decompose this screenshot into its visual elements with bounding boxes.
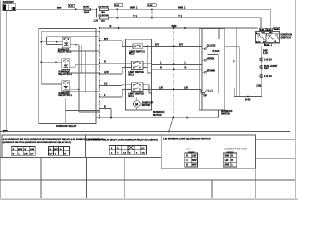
svg-text:MAIN: MAIN: [83, 6, 89, 9]
connector E3 label: [264, 75, 272, 78]
wire W/R top run: [109, 8, 271, 10]
wire battery ground drop: [5, 11, 7, 132]
svg-text:NO.2: NO.2: [128, 74, 134, 76]
wire LS2 rows: [125, 46, 151, 73]
wire up contact drop: [233, 88, 235, 97]
limit switch LS1: [132, 83, 144, 92]
switch contact OPEN: [199, 57, 209, 64]
ignition switch box U1: [256, 32, 280, 44]
svg-text:R: R: [185, 67, 187, 70]
wire motor stub: [136, 97, 138, 110]
fuse MAIN 120A: [83, 6, 91, 14]
junction dots relay outputs: [75, 44, 80, 90]
label row89 right: [184, 87, 188, 90]
wire LS3 row: [125, 45, 151, 47]
svg-text:Y 1: Y 1: [178, 14, 182, 18]
right column row 1: [256, 138, 295, 140]
limit switch LS2 label: [128, 72, 144, 76]
label row 97: [104, 94, 106, 97]
label DOWN: [207, 69, 215, 72]
svg-text:RELAY NO.1: RELAY NO.1: [58, 94, 72, 97]
ground bus arrow: [187, 117, 190, 119]
limit switch LS2: [132, 61, 144, 69]
relay box bus dashed connector: [99, 27, 101, 119]
label B/W feed: [57, 8, 62, 10]
label row46 left: [155, 44, 160, 47]
junction dot ground 173: [172, 117, 174, 119]
ignition contact 1: [258, 33, 265, 40]
svg-text:120A: 120A: [84, 11, 90, 14]
section C box: [161, 135, 255, 168]
label W/B mid: [172, 24, 177, 28]
svg-text:B-06: B-06: [245, 98, 251, 101]
wire switch feed drop: [218, 28, 220, 39]
relay R2: [62, 59, 70, 70]
label row64 right: [185, 62, 187, 65]
svg-text:A-02 SUNROOF RELAY (BODY CONT): A-02 SUNROOF RELAY (BODY CONT) SUNROOF R…: [85, 139, 158, 142]
section B header: [85, 139, 158, 142]
svg-text:1/C: 1/C: [142, 152, 146, 154]
grid vertical 255: [255, 139, 257, 198]
label 1and1: [208, 90, 214, 93]
svg-text:1&2: 1&2: [264, 67, 269, 70]
svg-text:SUNROOF: SUNROOF: [221, 111, 233, 113]
label UP: [204, 95, 208, 98]
svg-text:SWITCH: SWITCH: [221, 114, 230, 116]
svg-text:L/R: L/R: [225, 160, 229, 162]
wire bus row 63: [100, 62, 126, 64]
svg-text:L/Y: L/Y: [49, 154, 53, 156]
svg-text:L/Y: L/Y: [30, 154, 34, 156]
label B.10X: [213, 50, 220, 53]
wire motor row 69: [152, 68, 200, 70]
grid vertical 212: [211, 180, 213, 198]
svg-text:1.25: 1.25: [94, 21, 99, 23]
wire LS1 rows: [125, 85, 151, 93]
connector dashed line mid: [173, 27, 175, 118]
ignition switch striped label 3: [274, 27, 280, 30]
ignition internal terminals: [256, 32, 279, 43]
wire motor row 46: [152, 45, 200, 47]
wire motor row 64: [152, 63, 200, 65]
grid vertical 124: [124, 158, 126, 199]
svg-text:R: R: [160, 67, 162, 70]
label row 108: [104, 106, 106, 109]
wire ground bus: [96, 110, 219, 118]
wire relay outputs to collectors: [70, 45, 100, 112]
sunroof switch box: [199, 29, 224, 110]
svg-text:SWITCH: SWITCH: [281, 35, 291, 39]
grid vertical 41: [40, 158, 42, 199]
svg-text:BATTERY: BATTERY: [3, 1, 14, 4]
section C connector 2: [223, 152, 236, 167]
grid line row2 full: [0, 179, 295, 181]
wire bus row 85: [100, 84, 126, 87]
ground arrow battery: [3, 130, 9, 133]
connector circle E1: [260, 58, 263, 62]
connector E2 label: [264, 65, 278, 70]
svg-text:(1#): (1#): [187, 149, 191, 151]
svg-text:R: R: [104, 60, 106, 63]
ignition contact 2: [267, 33, 274, 39]
label row B: [104, 38, 109, 41]
junction LS3: [147, 46, 149, 48]
label row89 left: [159, 87, 163, 90]
junction dots relay feed1: [41, 41, 58, 63]
label 1B: [257, 84, 262, 87]
label 1.25 under wire2: [94, 21, 99, 23]
section C header: [163, 139, 211, 141]
svg-text:ACC: ACC: [256, 40, 261, 43]
connector label C-01: [114, 4, 123, 7]
wire bus row 97: [100, 89, 126, 97]
svg-text:B/Y: B/Y: [104, 38, 109, 41]
svg-text:(1) ROOM: (1) ROOM: [99, 7, 109, 9]
section A connector 2: [48, 147, 69, 156]
label Y mid: [233, 61, 235, 64]
label W/B right: [178, 6, 186, 10]
svg-text:W/R 1: W/R 1: [130, 6, 138, 10]
connector dashed line C-01: [116, 8, 118, 18]
label row 63: [104, 60, 106, 63]
svg-text:OPEN: OPEN: [207, 57, 214, 60]
svg-text:(SUNROOF SW ITCH (SUNROOF MOT: (SUNROOF SW ITCH (SUNROOF MOTOR/SUNROOF …: [3, 141, 72, 144]
motor M1: [133, 101, 140, 108]
label row46 right: [179, 44, 184, 47]
right column row 2: [256, 158, 295, 160]
wire bus row B: [100, 41, 126, 47]
fuse SUNROOF 15A: [99, 15, 110, 22]
label row 74: [104, 71, 109, 74]
sunroof motor box: [125, 39, 151, 110]
wire bus row 74: [100, 67, 126, 74]
section A box: [2, 135, 86, 158]
svg-text:W/B 1: W/B 1: [178, 6, 186, 10]
svg-text:DOWN: DOWN: [207, 69, 215, 72]
wire branch split: [96, 9, 98, 17]
svg-text:Y 1: Y 1: [133, 14, 137, 18]
svg-text:G: G: [60, 149, 62, 151]
sunroof switch label: [221, 111, 233, 116]
label row 85: [104, 83, 108, 86]
svg-text:L-B-10: L-B-10: [264, 58, 272, 61]
sunroof relay label: [56, 125, 77, 128]
svg-text:1.25: 1.25: [263, 52, 268, 55]
label B left: [110, 24, 112, 28]
sunroof motor box label: [153, 112, 165, 117]
wire relay ground internal: [65, 98, 99, 124]
svg-text:B/Y: B/Y: [179, 44, 184, 47]
connector label X-02: [147, 4, 156, 7]
ignition switch inner box: [266, 33, 280, 42]
svg-text:CLOSE: CLOSE: [207, 45, 216, 48]
wire motor box ground stub: [110, 109, 112, 118]
svg-text:B/Y: B/Y: [155, 44, 160, 47]
sunroof switch inner edge: [201, 29, 203, 110]
left frame border: [0, 1, 2, 199]
svg-text:MOTOR: MOTOR: [153, 115, 162, 117]
wire relay feed top2: [47, 37, 100, 45]
svg-text:SUNROOF: SUNROOF: [153, 112, 165, 114]
svg-text:UP: UP: [204, 95, 208, 98]
wire drop to ignition IG1: [270, 9, 272, 31]
switch contact UP: [199, 90, 207, 95]
junction dot 247: [247, 96, 249, 98]
ignition switch label: [281, 33, 293, 40]
wire relay coil returns: [66, 48, 100, 92]
ignition switch striped label 1: [259, 28, 265, 31]
svg-text:(SUNROOF SW ITCH): (SUNROOF SW ITCH): [225, 149, 248, 151]
label B-06: [245, 98, 251, 101]
wire drop to ignition B: [260, 18, 262, 29]
svg-text:L/R: L/R: [24, 154, 28, 156]
label row69 right: [185, 67, 187, 70]
battery B1: [3, 2, 16, 11]
junction dot feed 118: [118, 27, 120, 29]
fuse ROOM 15A: [99, 7, 110, 14]
junction dot ground 111: [110, 117, 112, 119]
wire close collector: [208, 55, 219, 94]
label row64 left: [160, 62, 162, 65]
svg-text:B/Y: B/Y: [54, 149, 58, 151]
switch contact DOWN: [199, 69, 209, 73]
wire relay feed top1: [41, 32, 99, 84]
connector circle E3: [260, 74, 263, 78]
svg-text:NO.1: NO.1: [128, 96, 134, 98]
relay R1 label: [58, 93, 72, 97]
motor M1 label: [142, 103, 154, 107]
switch contact CLOSE: [199, 46, 209, 50]
junction dot main feed: [75, 8, 77, 10]
wire Y second run: [109, 17, 262, 19]
label CLOSE: [207, 45, 216, 48]
junction dot branch: [96, 9, 98, 11]
connector E1 label: [264, 58, 272, 61]
wire battery feed: [16, 8, 97, 10]
svg-text:L/W: L/W: [104, 71, 109, 74]
limit switch LS3 label: [129, 51, 145, 55]
junction dot feed 185: [184, 27, 186, 29]
svg-text:MOTOR: MOTOR: [142, 105, 151, 107]
grid vertical 86: [85, 158, 87, 199]
relay R3 label: [58, 49, 72, 53]
ignition switch striped label 2: [266, 28, 272, 31]
svg-text:SUNROOF RELAY: SUNROOF RELAY: [56, 125, 77, 128]
wire ignition output drop: [260, 46, 262, 90]
sunroof relay outer box: [39, 28, 96, 123]
svg-text:(1) ROOM: (1) ROOM: [99, 15, 109, 17]
section C connector 1: [185, 152, 198, 167]
svg-text:B: B: [104, 106, 106, 109]
label Y: [133, 14, 137, 18]
section C sublabel 1: [187, 149, 191, 151]
wire ground diagonal: [169, 118, 173, 132]
right frame border: [294, 0, 296, 198]
label row69 left: [160, 67, 162, 70]
svg-text:15A: 15A: [101, 11, 105, 14]
wire ignition to switch vertical: [235, 28, 237, 97]
battery label: [3, 1, 14, 4]
svg-text:1-81 INTERIOR LIGHT (8)-SUNROO: 1-81 INTERIOR LIGHT (8)-SUNROOF SW ITCH: [163, 139, 211, 141]
wire ignition feed bus y28: [99, 27, 258, 29]
relay R3: [62, 37, 70, 48]
wire horizontal ignition ground run: [234, 90, 262, 97]
connector circle E2: [260, 65, 263, 69]
label B/W ignition out: [263, 50, 268, 55]
wire close output drop: [225, 47, 240, 97]
section C sublabel 2: [225, 149, 248, 151]
table top line: [0, 130, 290, 132]
connector dashed line X-02: [151, 8, 153, 18]
grid line left row1: [0, 157, 161, 159]
section B connector: [109, 146, 146, 155]
svg-text:L/R: L/R: [184, 87, 188, 90]
svg-text:LG: LG: [104, 83, 108, 86]
section A connector 1: [11, 147, 35, 156]
svg-text:B.10X: B.10X: [213, 50, 220, 53]
junction dot ground table: [168, 130, 170, 132]
svg-text:NO.3: NO.3: [129, 54, 135, 56]
bottom border gray band: [0, 198, 298, 200]
svg-text:L/R: L/R: [159, 87, 163, 90]
ignition bottom striped label: [264, 43, 272, 46]
section B box: [86, 135, 162, 158]
svg-text:(1B): (1B): [257, 84, 262, 87]
svg-text:RELAY NO.2: RELAY NO.2: [58, 73, 72, 76]
svg-text:F-B-10: F-B-10: [264, 75, 272, 78]
svg-text:15A: 15A: [101, 19, 105, 22]
relay R2 label: [58, 72, 72, 76]
svg-text:M: M: [135, 102, 138, 106]
label Y/B right: [178, 14, 182, 18]
relay R1: [62, 80, 70, 91]
connector label J/B-01: [68, 4, 74, 7]
limit switch LS3: [133, 44, 143, 49]
label OPEN: [207, 57, 214, 60]
svg-text:L/Y: L/Y: [141, 148, 145, 150]
limit switch LS1 label: [128, 94, 144, 98]
wire motor row 89: [152, 89, 200, 91]
wire bus row 108: [100, 108, 112, 110]
svg-text:1▲1: 1▲1: [208, 90, 214, 93]
svg-text:B: B: [110, 24, 112, 28]
section A header: [3, 138, 104, 144]
label W/R: [130, 6, 138, 10]
